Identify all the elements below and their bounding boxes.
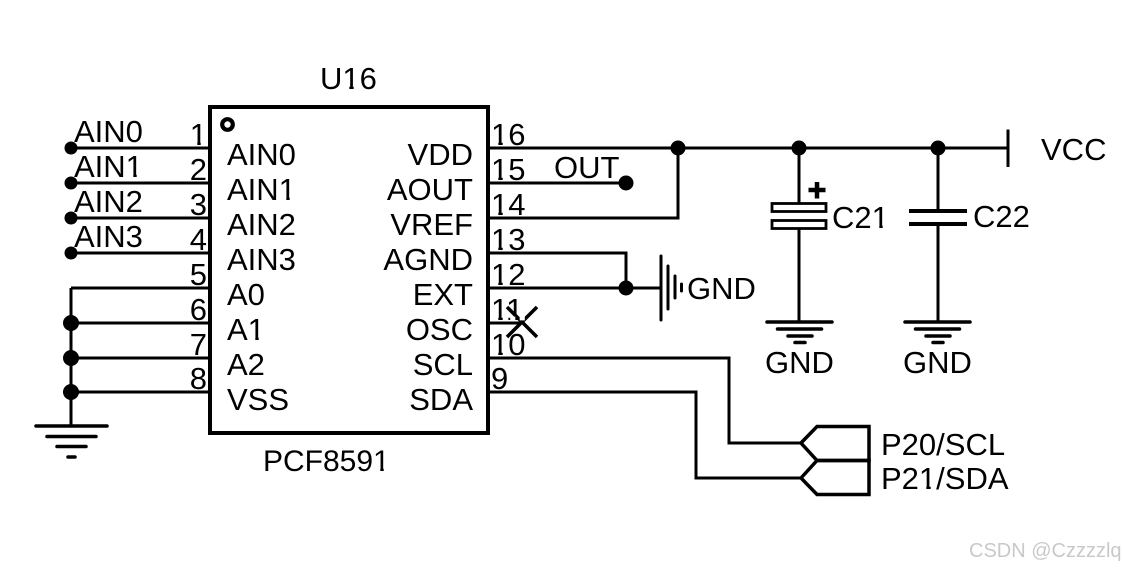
wire AGND pin 13 down to EXT net bbox=[488, 253, 626, 288]
wire A2 pin 7 bbox=[71, 357, 210, 360]
svg-text:GND: GND bbox=[687, 271, 756, 306]
wire SCL pin 10 to P20 bbox=[488, 358, 801, 443]
capacitor C22 plates bbox=[909, 211, 967, 224]
wire EXT pin 12 to ground bbox=[488, 287, 660, 290]
svg-text:AIN3: AIN3 bbox=[74, 219, 143, 254]
svg-text:AGND: AGND bbox=[383, 242, 473, 277]
svg-text:A2: A2 bbox=[227, 347, 265, 382]
junction A2 rail bbox=[63, 350, 79, 366]
node dot AIN2 bbox=[65, 212, 78, 225]
junction VSS rail bbox=[63, 384, 79, 400]
svg-text:AOUT: AOUT bbox=[387, 172, 473, 207]
svg-text:PCF8591: PCF8591 bbox=[263, 445, 390, 478]
wire AIN1 to pin 2 bbox=[71, 182, 210, 185]
ground symbol under C21 bbox=[767, 322, 832, 343]
glyph patch: square off digit-1 feet (target font has no foot serif) bbox=[127, 86, 936, 490]
capacitor C21 top wire bbox=[798, 148, 801, 204]
wire VREF pin 14 to VDD net bbox=[488, 148, 678, 218]
wire A1 pin 6 bbox=[71, 322, 210, 325]
node dot OUT bbox=[619, 176, 634, 191]
svg-text:U16: U16 bbox=[320, 61, 377, 96]
svg-text:AIN2: AIN2 bbox=[227, 207, 296, 242]
svg-text:AIN1: AIN1 bbox=[227, 172, 296, 207]
svg-text:A0: A0 bbox=[227, 277, 265, 312]
wire AIN3 to pin 4 bbox=[71, 252, 210, 255]
ground symbol sideways GND bbox=[661, 256, 682, 320]
svg-text:AIN2: AIN2 bbox=[74, 184, 143, 219]
capacitor C22 top wire bbox=[937, 148, 940, 211]
svg-text:SCL: SCL bbox=[413, 347, 473, 382]
svg-text:OUT: OUT bbox=[554, 150, 620, 185]
no-connect X on OSC bbox=[507, 307, 537, 337]
svg-text:VDD: VDD bbox=[408, 137, 473, 172]
svg-text:VSS: VSS bbox=[227, 382, 289, 417]
wire AOUT pin 15 to OUT bbox=[488, 182, 626, 185]
power symbol VCC bar bbox=[1007, 130, 1010, 168]
pin 1 indicator circle bbox=[222, 119, 233, 130]
IC U16 PCF8591 body bbox=[210, 107, 488, 433]
svg-text:AIN0: AIN0 bbox=[74, 114, 143, 149]
svg-text:AIN3: AIN3 bbox=[227, 242, 296, 277]
ground symbol under C22 bbox=[905, 322, 970, 343]
wire A0 pin 5 bbox=[71, 287, 210, 290]
capacitor C21 bottom wire bbox=[798, 229, 801, 323]
wire VSS pin 8 bbox=[71, 391, 210, 394]
node dot AIN1 bbox=[65, 177, 78, 190]
node dot AIN0 bbox=[65, 142, 78, 155]
ground symbol left bbox=[36, 426, 107, 457]
svg-text:EXT: EXT bbox=[413, 277, 473, 312]
svg-text:OSC: OSC bbox=[406, 312, 473, 347]
wire VDD pin 16 to VCC bbox=[488, 147, 1008, 150]
junction VREF-VDD bbox=[671, 141, 686, 156]
svg-text:AIN1: AIN1 bbox=[74, 149, 143, 184]
node dot AIN3 bbox=[65, 247, 78, 260]
junction VDD-C22 bbox=[931, 141, 946, 156]
capacitor C22 bottom wire bbox=[937, 224, 940, 322]
wire AIN2 to pin 3 bbox=[71, 217, 210, 220]
svg-text:GND: GND bbox=[765, 345, 834, 380]
svg-text:P20/SCL: P20/SCL bbox=[881, 427, 1005, 462]
junction AGND-EXT bbox=[619, 281, 634, 296]
svg-text:CSDN @Czzzzlq: CSDN @Czzzzlq bbox=[969, 540, 1122, 562]
connector P20/SCL bbox=[801, 427, 869, 461]
wire SDA pin 9 to P21 bbox=[488, 392, 801, 478]
connector P21/SDA bbox=[801, 461, 869, 495]
junction VDD-C21 bbox=[792, 141, 807, 156]
svg-text:VREF: VREF bbox=[390, 207, 473, 242]
OSC pin 11 no-connect stub bbox=[488, 322, 522, 325]
svg-text:AIN0: AIN0 bbox=[227, 137, 296, 172]
svg-text:SDA: SDA bbox=[409, 382, 473, 417]
capacitor C21 polarity plus bbox=[809, 182, 826, 199]
wire AIN0 to pin 1 bbox=[71, 147, 210, 150]
svg-text:C22: C22 bbox=[973, 199, 1030, 234]
svg-text:VCC: VCC bbox=[1041, 132, 1106, 167]
junction A1 rail bbox=[63, 315, 79, 331]
wire left ground rail bbox=[70, 288, 73, 426]
svg-text:GND: GND bbox=[903, 345, 972, 380]
svg-text:C21: C21 bbox=[832, 200, 889, 235]
svg-text:P21/SDA: P21/SDA bbox=[881, 461, 1009, 496]
capacitor C21 plates bbox=[772, 204, 826, 229]
svg-text:A1: A1 bbox=[227, 312, 265, 347]
